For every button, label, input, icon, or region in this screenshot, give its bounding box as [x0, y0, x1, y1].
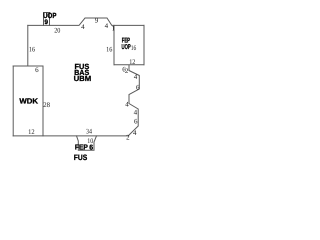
svg-text:4: 4 — [134, 73, 138, 81]
svg-text:6: 6 — [134, 118, 138, 126]
svg-text:16: 16 — [106, 46, 113, 54]
svg-text:12: 12 — [28, 128, 35, 136]
wire top wall with porch bump — [28, 18, 144, 25]
wire FEP box left edge / house right wall — [113, 25, 115, 64]
svg-text:6: 6 — [136, 83, 140, 91]
svg-text:UOP: UOP — [122, 44, 131, 51]
svg-text:WDK: WDK — [19, 97, 38, 106]
wire WDK left edge — [12, 66, 14, 136]
svg-text:16: 16 — [131, 44, 137, 52]
wire house left wall upper — [27, 25, 29, 66]
wire right zigzag — [129, 65, 140, 135]
svg-text:28: 28 — [43, 101, 50, 109]
svg-text:1: 1 — [111, 24, 115, 32]
wire FEP box bottom edge — [114, 64, 144, 66]
svg-text:6: 6 — [35, 66, 39, 74]
svg-text:20: 20 — [54, 27, 61, 35]
svg-text:34: 34 — [86, 128, 92, 136]
svg-text:6: 6 — [89, 145, 93, 152]
svg-text:4: 4 — [134, 109, 138, 117]
svg-text:2: 2 — [125, 67, 129, 75]
wire notch horizontal — [13, 65, 43, 67]
svg-text:FEP: FEP — [75, 143, 88, 152]
svg-text:9: 9 — [95, 16, 99, 24]
svg-text:9: 9 — [44, 19, 48, 26]
FEP bay window — [77, 136, 97, 150]
svg-text:4: 4 — [133, 129, 137, 137]
wire FEP box right edge — [143, 25, 145, 64]
UOP porch box — [44, 13, 50, 26]
wire bottom wall — [13, 135, 128, 137]
svg-text:FUS: FUS — [74, 153, 88, 162]
svg-text:2: 2 — [126, 134, 130, 142]
svg-text:4: 4 — [81, 23, 85, 31]
svg-text:4: 4 — [125, 101, 129, 109]
svg-text:4: 4 — [105, 22, 109, 30]
wire WDK right edge / house left wall lower — [42, 66, 44, 136]
svg-text:UBM: UBM — [74, 74, 92, 83]
svg-text:12: 12 — [129, 58, 136, 66]
svg-text:16: 16 — [29, 46, 36, 54]
